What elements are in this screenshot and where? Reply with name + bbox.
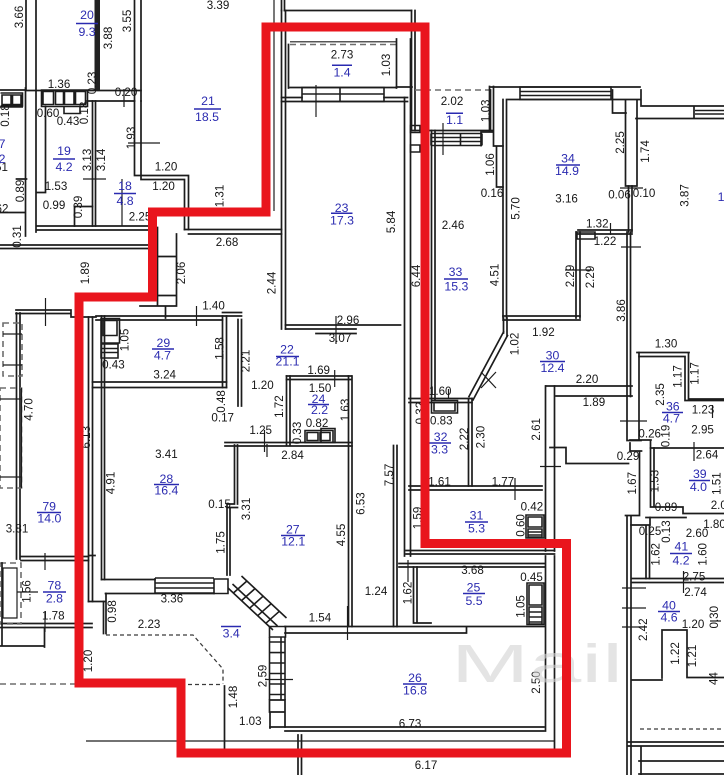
svg-text:0.83: 0.83: [430, 414, 453, 427]
node room label underlines blue: [37, 24, 710, 685]
svg-text:2.23: 2.23: [138, 618, 161, 631]
wire room 33 left wall: [432, 131, 436, 401]
node tick right wing y608: [621, 247, 646, 608]
node tick 2.02: [442, 123, 444, 155]
wire room 25 left wall: [414, 567, 432, 623]
wire wall left of window 3.36: [102, 580, 215, 594]
node tick corridor bottom: [347, 606, 349, 640]
node window 3.36 horizontal: [155, 578, 214, 593]
node tick 1.93: [128, 142, 160, 144]
svg-text:1.1: 1.1: [446, 113, 463, 127]
svg-text:4.55: 4.55: [335, 524, 348, 547]
svg-text:1.20: 1.20: [682, 618, 705, 631]
svg-text:2.29: 2.29: [564, 265, 577, 288]
node window 2.59 vertical: [270, 637, 286, 700]
svg-text:1.75: 1.75: [215, 531, 228, 554]
svg-text:9.3: 9.3: [78, 25, 95, 39]
svg-text:1.22: 1.22: [669, 642, 682, 665]
svg-text:1.60: 1.60: [696, 543, 709, 566]
wire room 29 bottom wall: [93, 382, 227, 388]
node tick 2.64: [540, 442, 694, 467]
svg-text:0.23: 0.23: [86, 72, 99, 95]
svg-text:Mail: Mail: [451, 634, 623, 694]
svg-text:1.93: 1.93: [125, 127, 138, 150]
svg-text:0.39: 0.39: [72, 196, 85, 219]
svg-text:78: 78: [48, 578, 62, 592]
svg-text:0.18: 0.18: [78, 102, 91, 125]
node dashed box room 78: [0, 563, 21, 624]
wire room 21 bottom wall: [185, 230, 282, 235]
svg-text:25: 25: [467, 581, 481, 595]
wire wall rooms 20|21: [135, 0, 142, 101]
wire wall rooms 19|18: [93, 101, 96, 226]
wire balcony 1.4 glazing dashed: [290, 44, 396, 46]
wire wall under room 20: [26, 91, 141, 102]
svg-text:0.89: 0.89: [14, 180, 27, 203]
svg-text:18: 18: [118, 179, 132, 193]
svg-text:0.31: 0.31: [11, 225, 24, 248]
wire right wing boundary wall: [626, 232, 642, 775]
node shaft box room 31: [526, 515, 544, 538]
svg-text:1.78: 1.78: [42, 609, 65, 622]
svg-text:2.64: 2.64: [696, 448, 719, 461]
wire rooms 78,79 top wall: [16, 310, 96, 317]
wire room 31 bottom wall: [406, 551, 555, 555]
svg-text:3.55: 3.55: [121, 10, 134, 33]
svg-text:1.56: 1.56: [21, 580, 34, 603]
wire room 29 top wall: [96, 313, 242, 321]
svg-text:4.2: 4.2: [55, 160, 72, 174]
svg-text:14.0: 14.0: [37, 512, 61, 526]
wire diagonal wall room 30: [469, 332, 508, 400]
node small boxes room 30 top: [577, 232, 595, 239]
wire room 19 left wall: [37, 107, 46, 193]
wire wall above room 79: [0, 245, 155, 249]
svg-text:0.13: 0.13: [660, 520, 673, 543]
svg-text:0.29: 0.29: [617, 450, 640, 463]
svg-text:1.24: 1.24: [365, 585, 388, 598]
wire balcony 1.1 glazing dashed: [415, 89, 490, 91]
wire door jog right wing: [630, 440, 724, 448]
wire wall 0.98: [102, 316, 105, 580]
wire wall below red bottom: [225, 686, 302, 775]
svg-text:2.21: 2.21: [240, 350, 253, 373]
node window cap box: [214, 579, 228, 594]
wire rooms 25,26 right wall: [546, 556, 555, 748]
node tick right wing y421: [620, 420, 647, 422]
node tick 1.25: [264, 430, 266, 452]
svg-text:1.20: 1.20: [155, 161, 178, 174]
svg-text:0.15: 0.15: [208, 498, 231, 511]
svg-text:32: 32: [434, 430, 448, 444]
wire bottom right wing walls: [628, 742, 724, 775]
svg-text:1.54: 1.54: [309, 612, 332, 625]
svg-text:1.02: 1.02: [508, 333, 521, 356]
svg-text:1: 1: [718, 190, 724, 204]
node corner box diagonal to vertical: [270, 627, 286, 638]
svg-text:1.61: 1.61: [428, 476, 451, 489]
node diagonal dimension cross: [481, 372, 496, 388]
svg-text:3.81: 3.81: [6, 522, 29, 535]
svg-text:0.30: 0.30: [708, 606, 721, 629]
wire walls room 20 left outer wall: [0, 0, 36, 232]
node shaft box room 25: [527, 583, 544, 625]
svg-text:44: 44: [708, 672, 721, 685]
svg-text:15.3: 15.3: [444, 279, 468, 293]
wire wall rooms 21|23: [282, 11, 286, 330]
svg-text:1.74: 1.74: [639, 140, 652, 163]
svg-text:5.5: 5.5: [465, 594, 482, 608]
svg-text:0.60: 0.60: [514, 514, 527, 537]
wire wall right of red left leg: [273, 0, 275, 211]
node tick 1.77: [514, 478, 516, 500]
svg-text:3.4: 3.4: [223, 627, 240, 641]
wire room 26 top wall: [285, 627, 545, 634]
wire room 26 bottom wall: [270, 727, 544, 731]
wire rooms 78 walls: [0, 557, 92, 628]
svg-text:0.26: 0.26: [638, 428, 661, 441]
wire wall 2.29: [576, 232, 580, 318]
svg-text:2.75: 2.75: [683, 571, 706, 584]
node boxes room 24: [305, 429, 335, 443]
wire balcony 1.4 top solid line: [290, 41, 396, 43]
svg-text:3.13: 3.13: [81, 149, 94, 172]
wire room 24 top wall: [287, 376, 352, 380]
node tick 1.23: [712, 405, 714, 418]
wire room 23 bottom wall: [286, 325, 401, 334]
svg-text:7.57: 7.57: [383, 464, 396, 487]
wire left edge bottom walls: [0, 563, 45, 647]
svg-text:33: 33: [449, 265, 463, 279]
svg-text:1.03: 1.03: [239, 715, 262, 728]
svg-text:1.20: 1.20: [82, 650, 95, 673]
svg-text:3.07: 3.07: [329, 332, 352, 345]
node stair sill below 1.1: [431, 134, 482, 146]
wire wall rooms 33|34: [503, 100, 507, 319]
wire room 32 top wall: [409, 399, 472, 403]
svg-text:3.39: 3.39: [207, 0, 230, 12]
svg-text:2.22: 2.22: [458, 428, 471, 451]
node tick 2.59: [265, 679, 293, 681]
svg-text:1.58: 1.58: [213, 337, 226, 360]
wire long thin wall above red bottom: [86, 740, 554, 742]
svg-text:7: 7: [0, 137, 6, 151]
wire rooms 24,27 right wall and corridor left: [349, 376, 353, 627]
wire dashed line bottom left: [0, 683, 75, 685]
node radiator boxes on corridor wall: [411, 126, 421, 153]
svg-text:2: 2: [0, 152, 6, 166]
wire wall under room 34: [578, 230, 632, 234]
node dashed balcony left lower: [0, 388, 22, 488]
wire balcony 1.4 side walls: [289, 39, 397, 88]
svg-text:0.18: 0.18: [0, 104, 12, 127]
svg-text:5.70: 5.70: [510, 197, 523, 220]
svg-text:1.23: 1.23: [692, 404, 715, 417]
svg-text:1.36: 1.36: [48, 78, 71, 91]
svg-text:4.70: 4.70: [23, 398, 36, 421]
svg-text:2.59: 2.59: [256, 665, 269, 688]
wire corridor 1.24 right wall: [394, 446, 398, 627]
svg-text:3.36: 3.36: [161, 592, 184, 605]
svg-text:1.48: 1.48: [227, 686, 240, 709]
node tick under room 34 wall: [620, 187, 643, 189]
wire room 41 left wall: [631, 518, 650, 579]
node tick 1.32: [610, 223, 612, 235]
wire room 30 left wall: [504, 318, 508, 336]
svg-text:2.44: 2.44: [266, 271, 279, 294]
wire room 24 bottom wall: [266, 444, 268, 457]
svg-text:1.05: 1.05: [118, 329, 131, 352]
svg-text:1.89: 1.89: [583, 396, 606, 409]
wire step 0.39: [75, 207, 93, 227]
svg-text:2.46: 2.46: [442, 219, 465, 232]
svg-text:1.03: 1.03: [380, 54, 393, 77]
svg-text:2.20: 2.20: [576, 373, 599, 386]
svg-text:3.88: 3.88: [102, 27, 115, 50]
node boxes room 29: [101, 319, 120, 359]
svg-text:4.8: 4.8: [116, 194, 133, 208]
wire room 79 left wall: [17, 313, 21, 559]
wire rooms 19,18 bottom wall: [37, 226, 149, 230]
wire left corridor wall: [0, 88, 27, 236]
wire room 29 right wall: [223, 316, 242, 406]
wire niche walls left of room 34: [481, 87, 503, 188]
svg-text:6.53: 6.53: [355, 492, 368, 515]
svg-text:4.7: 4.7: [663, 412, 680, 426]
svg-text:16.4: 16.4: [154, 484, 178, 498]
svg-text:2.95: 2.95: [691, 423, 714, 436]
node tick 1.69: [334, 370, 336, 387]
node inner box room 78: [3, 568, 17, 618]
wire room 24 left wall: [287, 376, 291, 446]
wire top wall right wing: [490, 87, 640, 100]
node tick 3.68: [407, 560, 409, 582]
svg-text:0.42: 0.42: [521, 501, 544, 514]
svg-text:2.06: 2.06: [175, 262, 188, 285]
svg-text:3.66: 3.66: [13, 6, 26, 29]
wire room 39 walls: [646, 448, 724, 518]
svg-text:0.43: 0.43: [57, 115, 80, 128]
wire room 40 jog walls: [632, 630, 724, 680]
svg-text:0.33: 0.33: [291, 422, 304, 445]
svg-text:3.41: 3.41: [155, 448, 178, 461]
svg-text:1.22: 1.22: [594, 235, 617, 248]
node tick right wing y627: [622, 626, 647, 628]
svg-text:2.04: 2.04: [711, 499, 724, 512]
svg-text:18.5: 18.5: [195, 110, 219, 124]
svg-text:1.17: 1.17: [672, 365, 685, 388]
node tick 3.13: [83, 178, 106, 180]
svg-text:2.29: 2.29: [584, 266, 597, 289]
svg-text:1.25: 1.25: [249, 424, 272, 437]
wire wall rooms 34|35 lower: [629, 186, 633, 232]
svg-text:3.3: 3.3: [431, 443, 448, 457]
svg-text:1.30: 1.30: [655, 338, 678, 351]
wire corridor door jog: [550, 448, 629, 464]
svg-text:2.84: 2.84: [281, 449, 304, 462]
svg-text:41: 41: [675, 540, 689, 554]
svg-text:5.3: 5.3: [468, 522, 485, 536]
svg-text:3.16: 3.16: [555, 193, 578, 206]
svg-text:0.06: 0.06: [608, 189, 631, 202]
node ticks room 78: [17, 553, 45, 632]
svg-text:4.7: 4.7: [154, 348, 171, 362]
svg-text:2.73: 2.73: [331, 49, 354, 62]
svg-text:2.61: 2.61: [530, 418, 543, 441]
wire room 28 bottom left wall: [89, 601, 106, 603]
wire wall rooms 30|31: [546, 386, 555, 551]
svg-text:1.63: 1.63: [339, 399, 352, 422]
svg-text:3.14: 3.14: [95, 148, 108, 171]
node tick 0.20: [123, 89, 125, 107]
svg-text:2.68: 2.68: [216, 236, 239, 249]
node diagonal window band: [228, 576, 287, 630]
svg-text:17.3: 17.3: [330, 214, 354, 228]
node tick 1.40: [196, 306, 198, 326]
wire room 30 bottom wall: [546, 386, 632, 396]
svg-text:1.62: 1.62: [401, 582, 414, 605]
svg-text:0.82: 0.82: [306, 417, 329, 430]
svg-text:2.74: 2.74: [684, 586, 707, 599]
wire room 18 right wall with step: [135, 101, 189, 230]
svg-text:2.42: 2.42: [637, 618, 650, 641]
svg-text:1.72: 1.72: [273, 395, 286, 418]
svg-text:1.20: 1.20: [251, 379, 274, 392]
svg-text:0.20: 0.20: [115, 86, 138, 99]
svg-text:0.10: 0.10: [633, 187, 656, 200]
node box room 32: [432, 401, 458, 414]
node tick 2.75: [683, 571, 685, 593]
wire top right corner walls: [613, 90, 724, 119]
wire balcony 1.1 left wall: [412, 11, 416, 131]
svg-text:2.30: 2.30: [474, 426, 487, 449]
svg-text:6.73: 6.73: [399, 718, 422, 731]
wire dashed corridor 3.4: [106, 635, 223, 685]
node tick 1.60: [448, 389, 450, 399]
svg-text:1.77: 1.77: [492, 476, 515, 489]
node tick balcony sill: [315, 85, 317, 117]
svg-text:5.84: 5.84: [385, 210, 398, 233]
svg-text:1.17: 1.17: [689, 362, 702, 385]
node balcony inner lines lower: [0, 388, 22, 488]
wire room 20 left wall thick: [95, 0, 101, 90]
wire wall stub top room 21|23: [282, 0, 285, 11]
node appliance boxes left edge: [0, 93, 23, 107]
wire room 31 top wall: [409, 486, 542, 490]
svg-text:1.60: 1.60: [429, 385, 452, 398]
wire room 34 right wall: [626, 100, 638, 186]
svg-text:3.31: 3.31: [240, 498, 253, 521]
svg-text:6.17: 6.17: [415, 759, 438, 772]
svg-text:14.9: 14.9: [555, 164, 579, 178]
svg-text:1.92: 1.92: [532, 326, 555, 339]
wire top wall above balcony: [285, 10, 412, 12]
svg-text:1.40: 1.40: [202, 300, 225, 313]
svg-text:0.45: 0.45: [520, 571, 543, 584]
node tick 2.96: [335, 316, 337, 344]
svg-text:2.25: 2.25: [614, 131, 627, 154]
svg-text:0.25: 0.25: [639, 525, 662, 538]
svg-text:1.03: 1.03: [479, 100, 492, 123]
svg-text:1.06: 1.06: [484, 153, 497, 176]
wire balcony 1.1 bottom wall: [412, 90, 494, 131]
svg-text:0.48: 0.48: [215, 390, 228, 413]
wire room 26 left lower corner: [270, 700, 286, 728]
svg-text:0.98: 0.98: [106, 600, 119, 623]
svg-text:1.31: 1.31: [214, 185, 227, 208]
svg-text:20: 20: [80, 8, 94, 22]
svg-text:1.69: 1.69: [307, 364, 330, 377]
svg-text:4.91: 4.91: [105, 472, 118, 495]
svg-text:3.87: 3.87: [678, 184, 691, 207]
node dashed balcony left upper: [3, 323, 22, 376]
svg-text:4.51: 4.51: [489, 264, 502, 287]
wire room 79 right wall: [89, 317, 96, 602]
svg-text:12.4: 12.4: [541, 361, 565, 375]
wire shaft right of red left leg: [140, 228, 177, 319]
svg-text:2.60: 2.60: [686, 527, 709, 540]
node balcony inner lines upper: [3, 334, 22, 365]
svg-text:0.99: 0.99: [43, 199, 66, 212]
svg-text:1.62: 1.62: [649, 543, 662, 566]
svg-text:0.89: 0.89: [655, 501, 678, 514]
wire corridor 3.4 left wall: [104, 594, 107, 634]
svg-text:4.6: 4.6: [660, 611, 677, 625]
wire wall 1.25 with door: [225, 443, 352, 447]
svg-text:3.68: 3.68: [461, 564, 484, 577]
wire room 41 bottom wall: [632, 579, 724, 583]
node window room 34: [520, 87, 611, 100]
svg-text:4.0: 4.0: [690, 480, 707, 494]
svg-text:4.2: 4.2: [672, 554, 689, 568]
svg-text:16.8: 16.8: [403, 684, 427, 698]
svg-text:1.67: 1.67: [626, 472, 639, 495]
svg-text:3.86: 3.86: [615, 299, 628, 322]
svg-text:2.96: 2.96: [337, 314, 360, 327]
svg-text:1.53: 1.53: [649, 470, 662, 493]
node red apartment outline: [79, 27, 567, 753]
svg-text:0.19: 0.19: [660, 425, 673, 448]
svg-text:39: 39: [693, 467, 707, 481]
wire room 33 bottom wall: [503, 316, 580, 320]
wire room 36 walls: [637, 353, 724, 401]
svg-text:19: 19: [57, 144, 71, 158]
wire room 32 right wall: [469, 399, 473, 487]
wire room 28 right wall step: [227, 445, 238, 575]
wire wall rooms 22|23|31 right side long: [397, 39, 413, 556]
wire room 25 top wall: [399, 564, 545, 568]
svg-text:1.51: 1.51: [711, 472, 724, 495]
node tick 2.29: [565, 269, 592, 271]
svg-text:1.53: 1.53: [45, 180, 68, 193]
node window room 23: [302, 88, 384, 102]
node appliance row room 19 top: [42, 90, 88, 114]
svg-text:1.32: 1.32: [586, 218, 609, 231]
svg-text:12.1: 12.1: [281, 535, 305, 549]
svg-text:62: 62: [0, 203, 8, 216]
svg-text:3.24: 3.24: [153, 369, 176, 382]
svg-text:2.25: 2.25: [129, 211, 152, 224]
svg-text:2.02: 2.02: [441, 95, 464, 108]
svg-text:21: 21: [201, 94, 215, 108]
node tick 1.20 right wing: [710, 620, 721, 622]
node tick 79 top: [45, 298, 47, 326]
svg-text:2.8: 2.8: [46, 592, 63, 606]
svg-text:0.16: 0.16: [481, 187, 504, 200]
node window room 35: [695, 111, 724, 115]
svg-text:1.4: 1.4: [333, 66, 350, 80]
svg-text:1.05: 1.05: [515, 595, 528, 618]
